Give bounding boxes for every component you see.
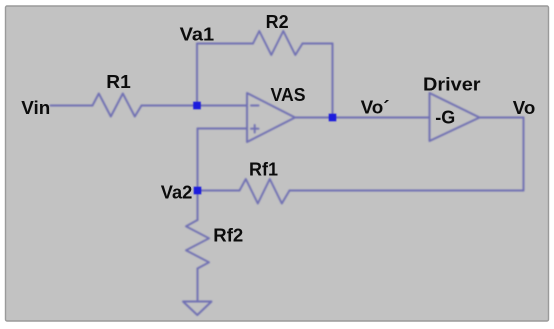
op-amp U1 VAS triangle [247,93,295,142]
wire feedback horizontal to Rf1 [290,190,524,192]
wire R2 to corner [303,43,333,45]
svg-text:-G: -G [435,108,455,128]
wire Va2 down to Rf2 [197,191,199,221]
svg-text:Driver: Driver [423,75,481,95]
wire Va1 to R2 [197,43,253,45]
resistor R1 [93,94,142,117]
wire driver output [480,117,524,119]
wire Rf2 to ground [197,269,199,302]
op-amp minus sign [251,105,259,107]
node Va2 junction square [194,187,202,195]
wire op-amp output to driver [295,117,430,119]
svg-text:Va1: Va1 [180,25,215,45]
amplifier Driver triangle [430,93,480,141]
svg-text:Va2: Va2 [161,183,193,203]
svg-text:R2: R2 [266,12,289,32]
ground [183,302,212,316]
svg-text:Rf1: Rf1 [249,160,278,180]
resistor Rf1 [240,179,290,204]
svg-text:Rf2: Rf2 [213,226,243,246]
wire down to node Va2 [197,129,199,191]
svg-text:Vo´: Vo´ [361,98,390,118]
svg-text:Vin: Vin [21,98,50,118]
svg-text:R1: R1 [106,72,131,92]
node Va1 junction square [193,102,201,110]
wire Vin lead [51,105,93,107]
wire R1 to op-amp inverting input [142,105,248,107]
wire op-amp non-inverting input [198,128,248,130]
svg-text:VAS: VAS [271,85,306,105]
wire corner down to output node [332,44,334,118]
svg-text:Vo: Vo [513,98,536,118]
wire node Va1 vertical [196,44,198,106]
wire feedback vertical from Vo [523,118,525,191]
op-amp plus sign [251,125,259,133]
resistor R2 [253,31,303,55]
wire Va2 to Rf1 [198,190,240,192]
node Vo' junction square [329,114,337,122]
resistor Rf2 [186,220,209,269]
